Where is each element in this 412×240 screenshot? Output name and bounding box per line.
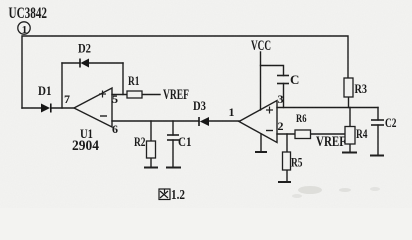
pin mark circled 1 [18, 22, 30, 36]
wire R4 stubs [349, 108, 351, 127]
ground R2 [144, 167, 158, 169]
wire pin2 to R6 [277, 133, 295, 135]
capacitor C1 [167, 135, 179, 140]
ground R5 [278, 181, 291, 183]
wire R5 stems [286, 134, 288, 152]
label figure 1.2 [159, 188, 185, 203]
wire R3 stub [348, 97, 350, 108]
wire D1 input [22, 107, 41, 109]
wire U2 ground stem [260, 134, 262, 152]
diode D2 [80, 59, 89, 68]
resistor R3 [344, 78, 353, 97]
capacitor C2 [371, 120, 384, 125]
op-amp U2 minus sign [266, 130, 273, 132]
wire C1 stem [172, 121, 174, 135]
op-amp U1 plus sign [99, 91, 106, 98]
resistor R4 [345, 127, 355, 145]
op-amp U2 plus sign [266, 107, 273, 114]
wire top rail [22, 36, 348, 108]
resistor R1 [127, 91, 142, 98]
ground C2 [370, 155, 384, 157]
resistor R6 [295, 130, 311, 139]
resistor R5 [283, 152, 291, 170]
wire R2 stem [150, 121, 152, 141]
wire R6 to VREF [311, 133, 345, 135]
wire VCC stub [260, 52, 262, 110]
op-amp U2 triangle [239, 101, 277, 143]
capacitor C [277, 76, 289, 84]
wire C branch [261, 66, 284, 76]
diode D1 [41, 104, 51, 113]
resistor R2 [147, 141, 156, 158]
op-amp U1 minus sign [100, 115, 107, 117]
wire D3 to comparator [209, 120, 239, 122]
wire feedback right vertical [122, 63, 124, 95]
diode D3 [199, 117, 209, 126]
op-amp U1 triangle [74, 88, 112, 127]
watermark smudges [292, 186, 380, 198]
ground C1 [166, 167, 181, 169]
wire feedback top [62, 62, 80, 64]
ground U2 [255, 151, 267, 153]
ground R4 [342, 152, 357, 154]
wire C2 stubs [377, 108, 379, 121]
wire pin6 bus [112, 120, 199, 122]
wire pin5 to R1 [112, 94, 127, 96]
wire R1 to VREF [142, 94, 160, 96]
wire pin3 bus [277, 107, 378, 109]
wire feedback left vertical [61, 63, 63, 108]
